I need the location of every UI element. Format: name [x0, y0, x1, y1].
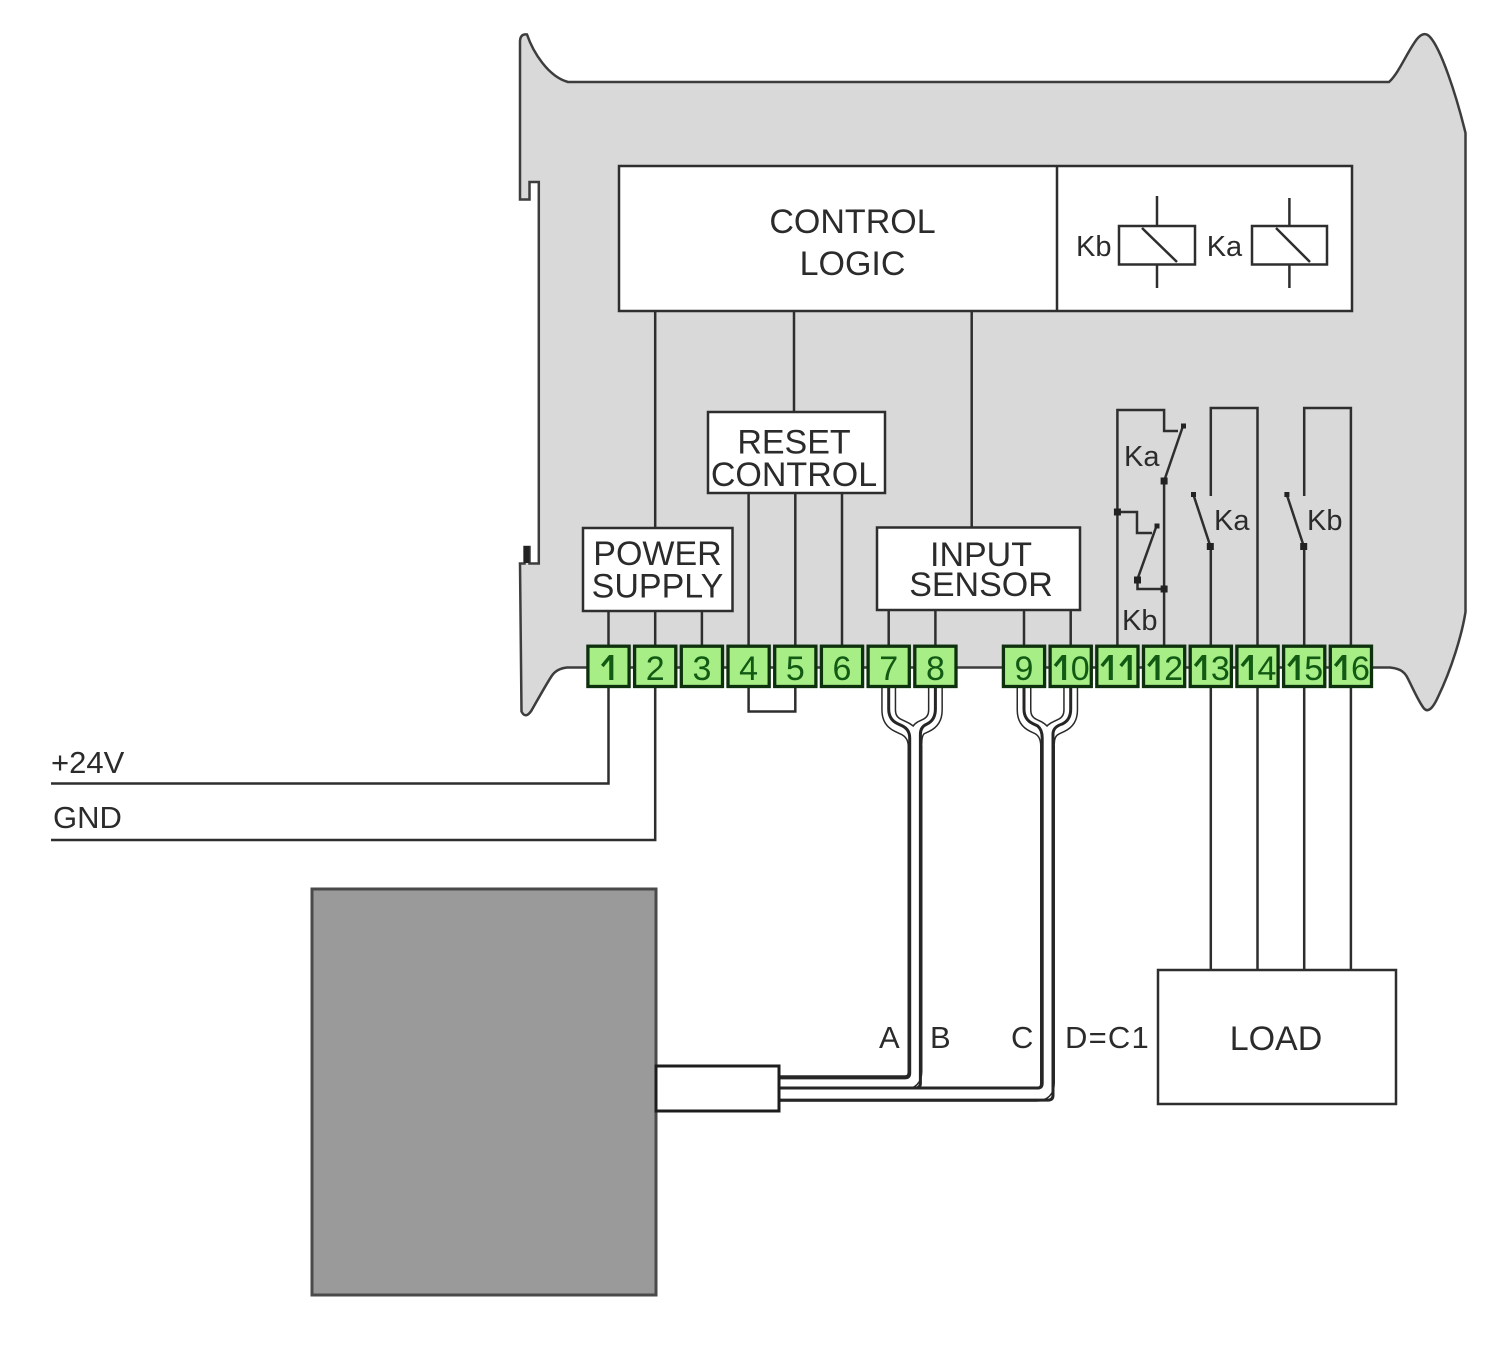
- svg-text:5: 5: [786, 650, 805, 688]
- svg-text:3: 3: [1211, 650, 1230, 688]
- svg-text:Kb: Kb: [1307, 505, 1342, 537]
- svg-text:CONTROL: CONTROL: [769, 203, 935, 241]
- svg-text:B: B: [930, 1020, 951, 1055]
- svg-text:4: 4: [739, 650, 758, 688]
- svg-text:4: 4: [1258, 650, 1277, 688]
- svg-text:6: 6: [1351, 650, 1370, 688]
- svg-text:5: 5: [1304, 650, 1323, 688]
- svg-text:LOAD: LOAD: [1230, 1020, 1323, 1058]
- svg-text:6: 6: [833, 650, 852, 688]
- svg-text:CONTROL: CONTROL: [711, 456, 877, 494]
- svg-text:Kb: Kb: [1122, 605, 1157, 637]
- svg-text:9: 9: [1015, 650, 1034, 688]
- svg-text:LOGIC: LOGIC: [800, 245, 906, 283]
- svg-text:2: 2: [1164, 650, 1183, 688]
- svg-text:Kb: Kb: [1076, 231, 1111, 263]
- svg-text:SUPPLY: SUPPLY: [592, 568, 724, 606]
- svg-text:3: 3: [692, 650, 711, 688]
- svg-text:+24V: +24V: [51, 745, 125, 780]
- svg-text:C: C: [1011, 1020, 1033, 1055]
- svg-text:7: 7: [879, 650, 898, 688]
- svg-text:GND: GND: [53, 800, 122, 835]
- svg-text:2: 2: [646, 650, 665, 688]
- svg-text:Ka: Ka: [1124, 441, 1160, 473]
- svg-text:Ka: Ka: [1207, 231, 1243, 263]
- svg-text:D=C1: D=C1: [1065, 1020, 1150, 1055]
- svg-text:A: A: [879, 1020, 900, 1055]
- svg-text:0: 0: [1071, 650, 1090, 688]
- svg-text:SENSOR: SENSOR: [909, 566, 1053, 604]
- svg-text:Ka: Ka: [1214, 505, 1250, 537]
- svg-text:8: 8: [926, 650, 945, 688]
